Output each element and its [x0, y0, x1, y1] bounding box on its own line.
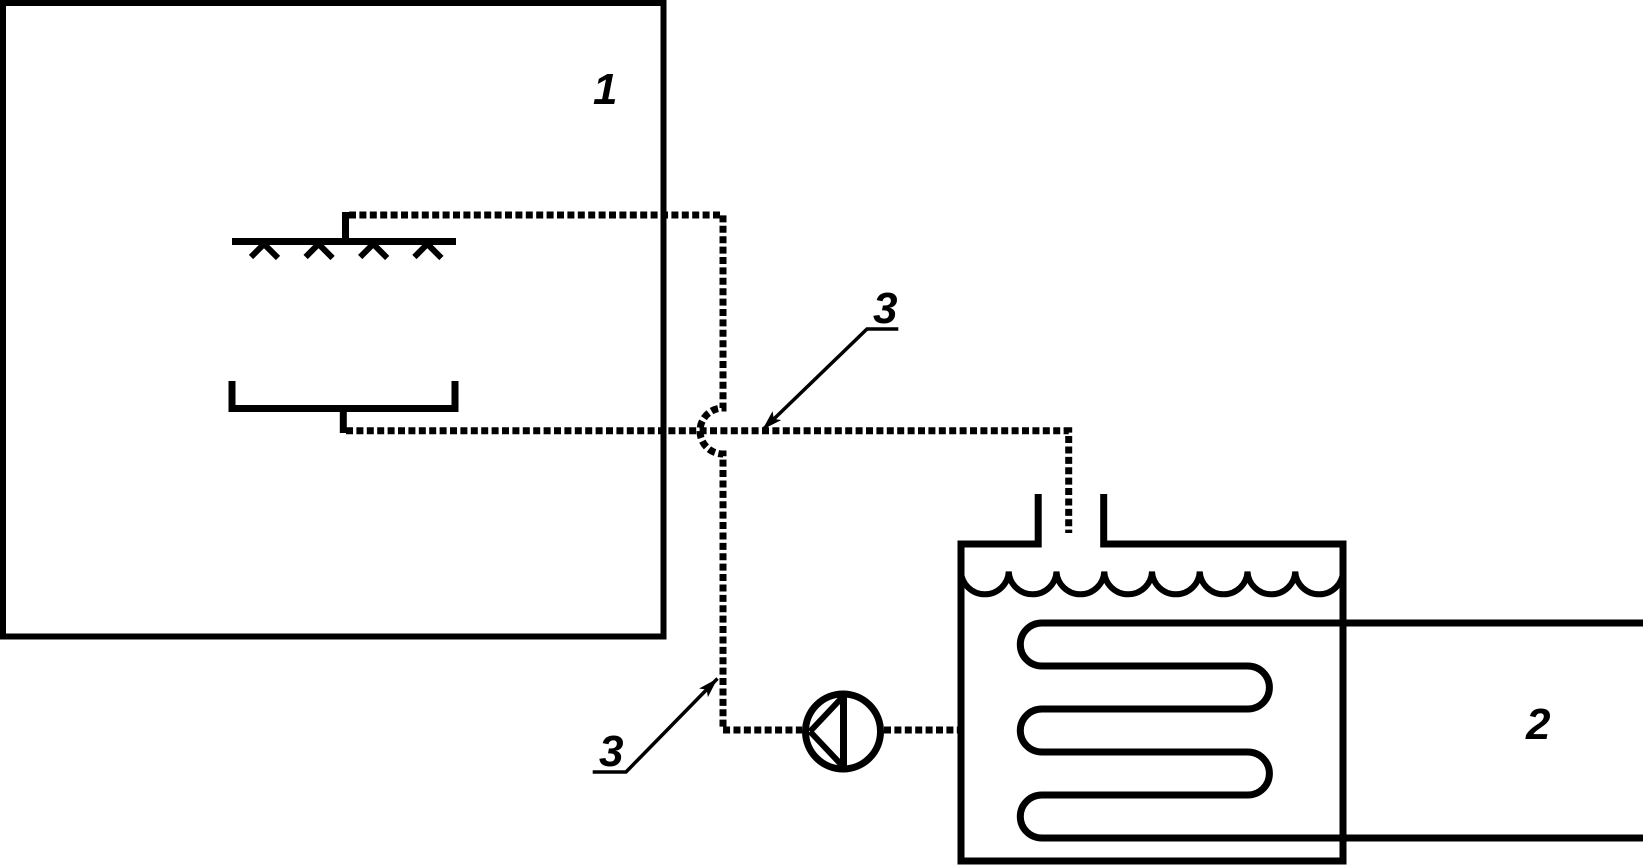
tray outlet stub [340, 409, 347, 434]
leader line for lower label 3 [593, 679, 718, 773]
svg-text:2: 2 [1525, 700, 1551, 749]
sprayer header line [232, 238, 456, 245]
pump circle [806, 694, 881, 769]
svg-text:3: 3 [873, 284, 897, 333]
pipe segment: pump to tank (dotted) [884, 727, 958, 734]
sprayer supply stub [342, 212, 349, 242]
svg-text:3: 3 [599, 727, 623, 776]
chamber 1 outline [3, 3, 664, 637]
sprayer nozzle mark 1 [251, 241, 278, 259]
leader line for upper label 3 [764, 329, 899, 429]
pipe 3 upper run: sprayer to pump (dotted, with crossover hop) [349, 215, 802, 730]
svg-text:1: 1 [593, 65, 617, 114]
heating coil serpentine [1020, 623, 1643, 838]
collection tray [232, 381, 455, 409]
arrowhead upper (points down-left to pipe) [763, 411, 782, 429]
pump triangle [810, 695, 844, 768]
arrowhead lower (points up-right to pipe) [699, 679, 717, 698]
water surface scallops [961, 572, 1343, 595]
sprayer nozzle mark 3 [360, 241, 387, 259]
sprayer nozzle mark 2 [306, 241, 333, 259]
sprayer nozzle mark 4 [414, 241, 441, 259]
pipe 3 lower run: tray to tank inlet (dotted) [346, 431, 1069, 533]
tank 2 outline with inlet pipe walls [961, 494, 1343, 861]
